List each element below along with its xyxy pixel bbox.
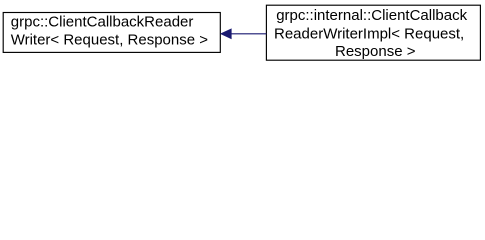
inheritance arrow (edge from derived to base): [221, 29, 267, 39]
svg-text:Writer< Request, Response >: Writer< Request, Response >: [11, 31, 209, 48]
svg-text:Response >: Response >: [335, 43, 416, 60]
svg-text:grpc::ClientCallbackReader: grpc::ClientCallbackReader: [11, 13, 194, 30]
svg-text:grpc::internal::ClientCallback: grpc::internal::ClientCallback: [276, 7, 467, 24]
node: grpc::internal::ClientCallbackReaderWriterImpl (derived class box): [266, 5, 480, 60]
wire: edge shaft: [231, 33, 267, 35]
svg-text:ReaderWriterImpl< Request,: ReaderWriterImpl< Request,: [274, 25, 464, 42]
arrowhead: [221, 29, 232, 39]
node: grpc::ClientCallbackReaderWriter (base class box): [3, 13, 220, 53]
